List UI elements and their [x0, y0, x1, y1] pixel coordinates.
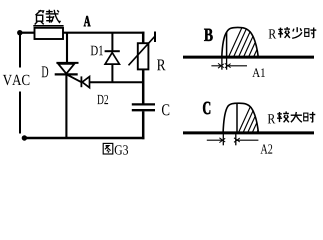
- 较: [278, 27, 290, 38]
- dimension line B right with arrow: [227, 65, 247, 67]
- label D2: [97, 95, 108, 104]
- 载: [48, 10, 50, 14]
- wire triac cathode down: [65, 76, 67, 138]
- label D: [42, 66, 49, 77]
- capacitor C top plate: [132, 103, 155, 105]
- capacitor C bottom plate: [132, 109, 155, 111]
- transistor D (thyristor): anode bar: [56, 62, 78, 64]
- dimension line B left with arrow: [211, 65, 221, 67]
- diode D1 triangle (points up): [105, 53, 119, 65]
- wire gate horizontal: [90, 81, 145, 83]
- thyristor D cathode bar: [55, 73, 78, 75]
- label D1: [91, 46, 103, 56]
- label R: [157, 60, 166, 71]
- wire left (VAC source lead, lower): [19, 92, 21, 134]
- wire top (load to right corner): [63, 32, 145, 34]
- dimension tick B right: [226, 58, 228, 69]
- dimension line C left with arrow: [207, 139, 223, 141]
- dimension line C right with arrow: [236, 139, 258, 141]
- wire D1 branch upper: [111, 33, 113, 51]
- wire left (VAC source lead, upper): [19, 34, 21, 68]
- 负: [36, 10, 42, 15]
- label R较大时: [268, 114, 276, 123]
- resistor R arrow diagonal: [129, 36, 156, 66]
- label VAC: [3, 75, 30, 85]
- diode D2 triangle (points left): [82, 77, 89, 88]
- 大: [291, 112, 302, 122]
- 较: [277, 112, 289, 123]
- 少: [292, 27, 302, 38]
- axis line B: [183, 56, 314, 59]
- label A2: [261, 144, 273, 153]
- dimension tick B left: [221, 58, 223, 69]
- dimension tick C left: [222, 134, 224, 145]
- waveform hump C: [223, 103, 258, 133]
- wire right branch lower: [142, 111, 145, 139]
- hatch lines C: [238, 103, 275, 134]
- diode D2 cathode bar: [80, 76, 82, 87]
- label B: [204, 29, 212, 41]
- thyristor D triangle: [58, 64, 74, 74]
- wire bottom: [25, 137, 145, 140]
- caption 图G3: [103, 143, 113, 154]
- resistor 负载 (load) box: [35, 28, 64, 39]
- 时: [304, 112, 316, 122]
- label A1: [252, 68, 265, 77]
- underline: [33, 25, 63, 27]
- label 负载 (load) with underline: [33, 10, 63, 26]
- resistor R (variable) box: [138, 43, 149, 69]
- label C: [162, 104, 169, 115]
- node bottom-left terminal: [22, 135, 27, 140]
- dimension tick C right: [235, 134, 237, 145]
- diode D1 cathode bar: [105, 50, 120, 52]
- resistor R arrow tick: [154, 32, 156, 43]
- label C: [203, 102, 210, 114]
- wire D1 branch lower: [111, 64, 113, 82]
- hatch lines B: [228, 27, 272, 58]
- wire triac branch (anode): [66, 33, 68, 62]
- wire from top terminal to load resistor: [20, 32, 35, 34]
- 时: [305, 28, 317, 38]
- axis line C: [183, 131, 314, 134]
- wire right branch mid: [142, 69, 145, 103]
- node A label: [84, 16, 91, 26]
- wire gate diagonal: [67, 75, 81, 83]
- wire right branch upper: [142, 32, 145, 44]
- firing chord B: [226, 32, 228, 57]
- firing chord C: [236, 103, 238, 133]
- label R较少时: [269, 29, 277, 38]
- node top-left terminal: [17, 30, 22, 35]
